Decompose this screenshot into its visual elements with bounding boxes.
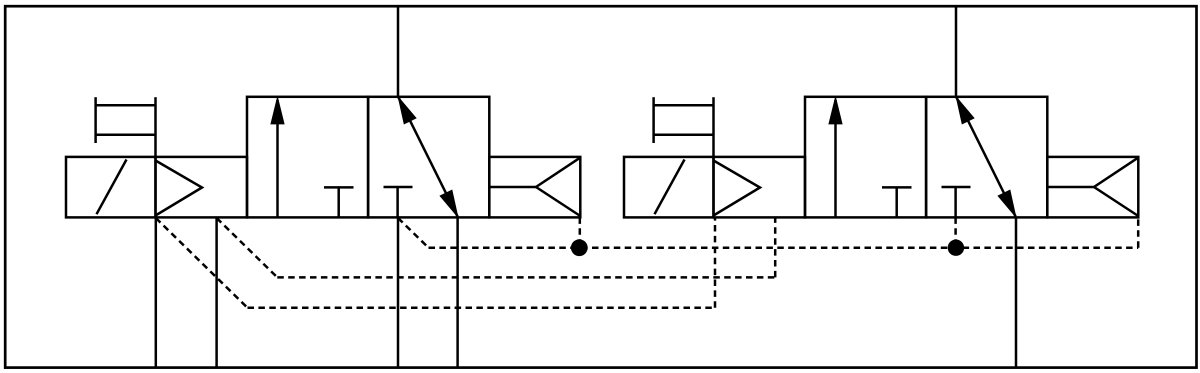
pilot line 1: riser to Y2 solenoid-divider port [714, 217, 717, 307]
pilot line 3: stub from Y2 T port [954, 217, 957, 247]
junction dot at Y1 return pilot stub [571, 239, 588, 256]
return pilot box Y2 (right side) [1047, 157, 1138, 218]
supply line from top border Y2 [955, 6, 958, 97]
pilot line 2: riser to Y2 pilot-box port [774, 217, 777, 277]
pilot box Y1 (internal pilot triangle) [156, 157, 248, 218]
flow arrow up Y2 [829, 97, 842, 217]
crossed flow arrow Y1 (double headed diagonal) [398, 97, 458, 217]
supply line from top border Y1 [397, 6, 400, 97]
valve body Y1 right position square [368, 97, 489, 218]
solenoid box Y1 with actuation slash [66, 157, 156, 218]
blocked port T Y1 (right square) [384, 187, 413, 217]
pilot line 3: Y1 exhaust port, diagonal down [398, 218, 429, 248]
port line from solenoid divider Y1 to bottom border [155, 217, 158, 367]
pilot line 2: Y1 pilot-box port, diagonal down [217, 218, 278, 277]
working line Y2 to bottom border [1015, 217, 1018, 367]
return pilot box Y1 (right side) [489, 157, 580, 218]
valve body Y2 right position square [926, 97, 1047, 218]
blocked port T Y2 (right square) [942, 187, 971, 217]
solenoid coil Y1 [96, 97, 156, 157]
blocked port T Y1 (left square) [324, 187, 354, 217]
pilot line 3: stub from Y1 return pilot box [579, 217, 582, 247]
pilot line 3: riser to Y2 return pilot box [1137, 217, 1140, 247]
pilot line 1: Y1 solenoid-divider port, diagonal down [156, 218, 248, 308]
working line Y1 to bottom border [456, 217, 459, 367]
valve body Y1 left position square [247, 97, 368, 218]
flow arrow up Y1 [271, 97, 284, 217]
pilot box Y2 (internal pilot triangle) [714, 157, 806, 218]
pilot line 3: horizontal run [429, 246, 1139, 249]
exhaust line Y1 (below T port) to bottom border [397, 217, 400, 367]
solenoid box Y2 with actuation slash [624, 157, 714, 218]
solenoid coil Y2 [654, 97, 714, 157]
junction dot at Y2 T port stub [948, 240, 964, 256]
pilot line 1: horizontal run [248, 307, 716, 310]
valve body Y2 left position square [805, 97, 926, 218]
crossed flow arrow Y2 (double headed diagonal) [956, 97, 1016, 217]
blocked port T Y2 (left square) [882, 187, 912, 217]
pilot line 2: horizontal run [277, 276, 775, 279]
port line from pilot box Y1 to bottom border [215, 217, 218, 367]
